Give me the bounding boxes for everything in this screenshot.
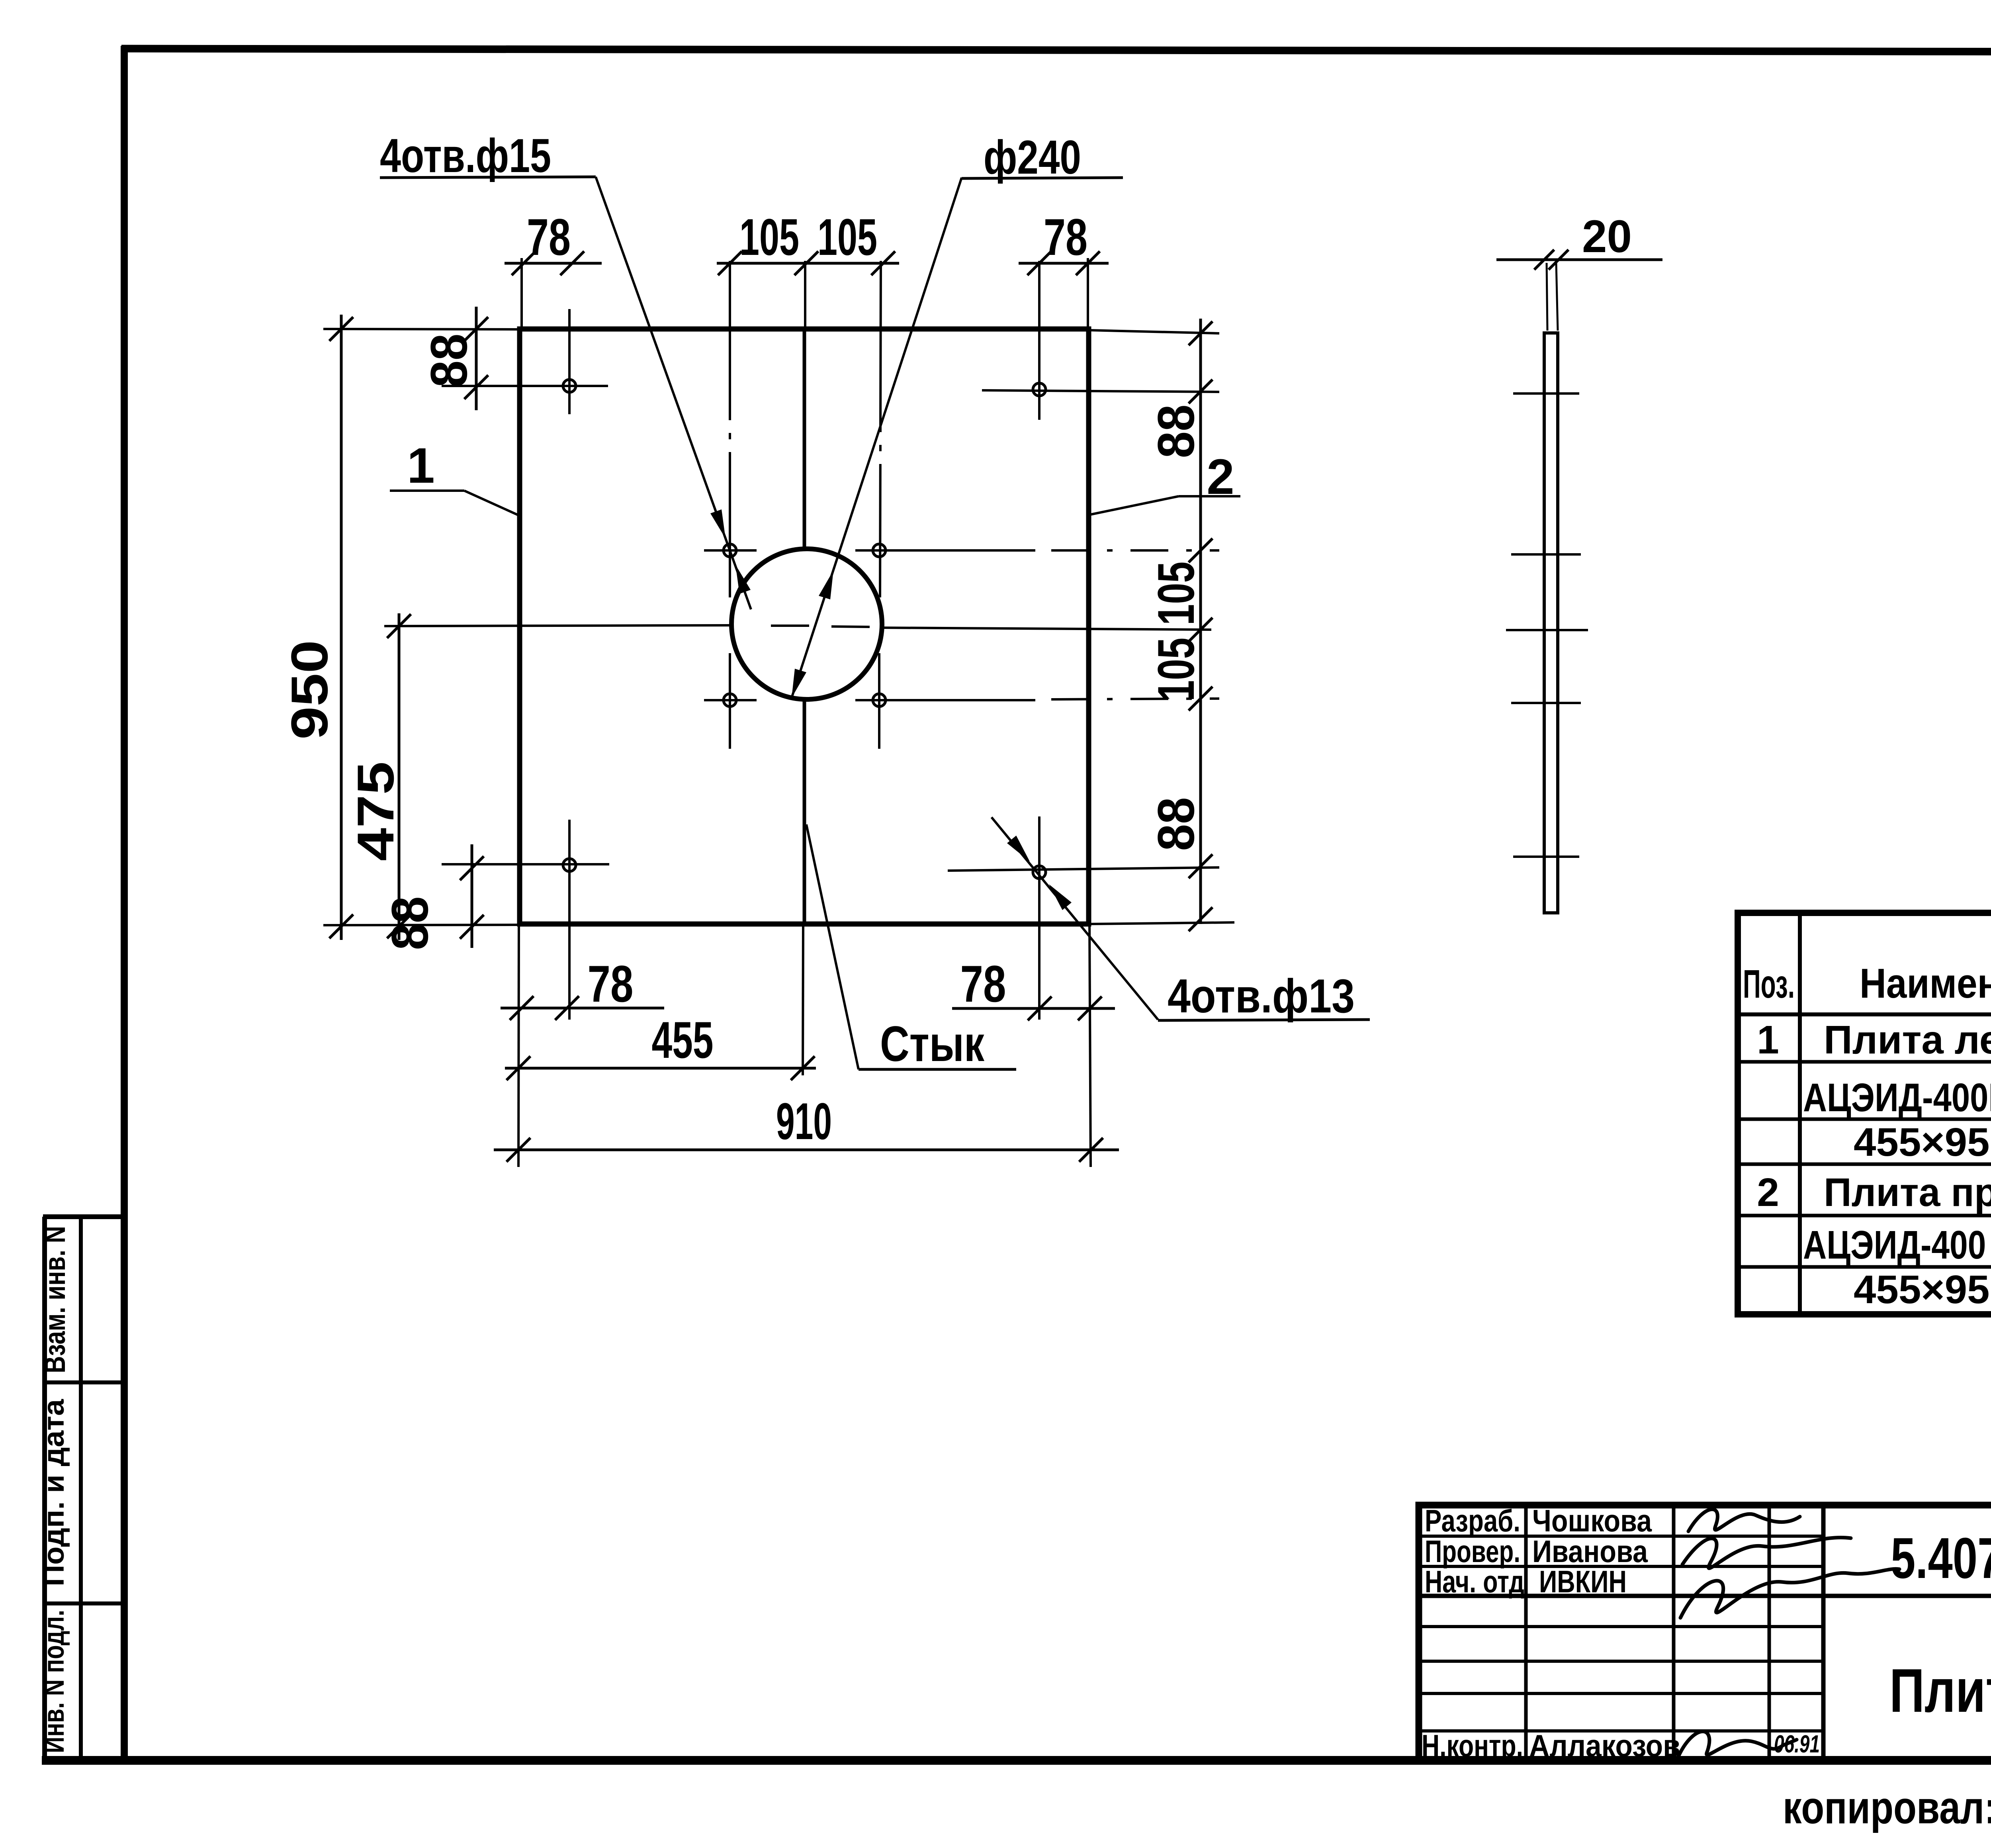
frame top border (121, 49, 1991, 53)
dim line left 475 (398, 613, 401, 940)
svg-text:Наименование: Наименование (1860, 960, 1991, 1007)
svg-text:ИВКИН: ИВКИН (1539, 1564, 1627, 1599)
svg-text:АЦЭИД-400ГОСТ4248-78: АЦЭИД-400ГОСТ4248-78 (1803, 1075, 1991, 1120)
leader pos1 (390, 489, 464, 492)
hole top-left (563, 380, 576, 392)
dim line right column (1199, 319, 1202, 924)
svg-text:Поз.: Поз. (1743, 962, 1795, 1006)
leader 4otv f15 (596, 177, 751, 609)
svg-text:105: 105 (1147, 638, 1205, 701)
dim line 910 (494, 1149, 1119, 1151)
PARTS TABLE outer (1738, 913, 1991, 1314)
SIDE VIEW (1544, 333, 1558, 913)
left extension: plate bottom edge (323, 925, 520, 925)
svg-text:1: 1 (407, 438, 435, 493)
hole mid row2 right (873, 694, 886, 707)
right extension: plate top edge (1089, 330, 1219, 333)
title block full divider under third row (1419, 1594, 1991, 1598)
signature nach otd (1680, 1569, 1899, 1618)
dim line left-bottom 88 (471, 844, 473, 948)
svg-text:455×950×20: 455×950×20 (1854, 1120, 1991, 1165)
svg-text:88: 88 (1147, 797, 1205, 851)
svg-text:Плита левая: Плита левая (1824, 1018, 1991, 1062)
hole top-right (1033, 383, 1046, 396)
mid row1 center line left segment (704, 549, 757, 552)
bottom extension: plate left edge (518, 924, 519, 1167)
leader styk (806, 824, 859, 1069)
svg-text:Плита П6: Плита П6 (1889, 1656, 1991, 1725)
svg-text:Чошкова: Чошкова (1532, 1503, 1652, 1538)
svg-text:78: 78 (960, 955, 1006, 1013)
signature squiggles (1678, 1509, 1899, 1756)
arrowhead f240 lower (792, 669, 806, 698)
svg-text:Взам. инв. N: Взам. инв. N (38, 1226, 71, 1373)
mid row2 center line right segment (855, 699, 1035, 701)
svg-text:Нач. отд: Нач. отд (1425, 1564, 1524, 1599)
svg-text:Иванова: Иванова (1532, 1534, 1648, 1569)
svg-text:ф240: ф240 (984, 131, 1081, 184)
svg-text:1: 1 (1757, 1018, 1779, 1062)
frame bottom border (42, 1756, 1991, 1765)
title block vertical: names/sign (1672, 1505, 1676, 1760)
svg-text:АЦЭИД-400 ГОСТ4248-78: АЦЭИД-400 ГОСТ4248-78 (1803, 1223, 1991, 1267)
leader pos2 (1179, 495, 1240, 497)
table row lines (1738, 1060, 1991, 1064)
svg-text:4отв.ф13: 4отв.ф13 (1168, 969, 1355, 1023)
TITLE BLOCK outer (1419, 1505, 1991, 1760)
mid row1 dash-dot extension (1051, 549, 1219, 552)
leader 4otv f13 (992, 817, 1158, 1020)
svg-text:Подп. и дата: Подп. и дата (37, 1399, 70, 1586)
svg-text:105: 105 (818, 208, 877, 266)
svg-text:2: 2 (1757, 1170, 1779, 1215)
dim line top-right 78 (1019, 262, 1109, 265)
svg-text:5.407-139.1-31: 5.407-139.1-31 (1891, 1526, 1991, 1590)
frame left border (121, 46, 128, 1764)
left extension: plate top edge (323, 329, 520, 329)
svg-text:Стык: Стык (880, 1016, 984, 1072)
svg-text:950: 950 (280, 640, 338, 740)
arrowhead f15 upper (710, 509, 726, 538)
svg-text:910: 910 (776, 1092, 832, 1150)
plate horizontal center line right segment (882, 628, 1211, 630)
hole bottom-right (1033, 866, 1046, 879)
title block vertical: sign/narrow (1768, 1505, 1771, 1760)
seam extension below plate (803, 924, 803, 1075)
hole bottom-left (563, 859, 576, 871)
signature prover (1682, 1537, 1851, 1568)
left side column block: outer lines (42, 1217, 47, 1760)
svg-text:06.91: 06.91 (1774, 1731, 1820, 1758)
arrowhead f13 lower (1049, 884, 1072, 910)
svg-text:4отв.ф15: 4отв.ф15 (380, 129, 551, 182)
mid row2 dash-dot extension (1051, 699, 1219, 699)
hole mid row2 left (724, 694, 736, 707)
svg-text:88: 88 (1147, 405, 1205, 458)
title block vertical: labels/names (1524, 1505, 1528, 1760)
svg-text:78: 78 (527, 208, 571, 266)
side view dim 20 (1496, 258, 1662, 261)
dim line 455 (505, 1067, 816, 1070)
hole mid row1 right (873, 544, 886, 557)
arrowhead f240 upper (819, 570, 833, 599)
arrowhead f15 lower (735, 565, 751, 594)
svg-text:455: 455 (652, 1011, 714, 1069)
svg-text:78: 78 (1044, 208, 1087, 266)
plate horizontal center line left segment (384, 625, 732, 626)
mid row2 center line left segment (704, 699, 757, 701)
mid row1 hole axis verticals (729, 261, 731, 597)
seam vertical line upper part (803, 329, 806, 550)
seam extension above plate (804, 261, 806, 329)
central hole circle d240 (731, 549, 882, 699)
signature n kontr (1678, 1731, 1797, 1756)
svg-text:78: 78 (588, 955, 634, 1013)
plate outline (square 950x910) (520, 329, 1089, 924)
table header bottom (1738, 1012, 1991, 1016)
svg-text:2: 2 (1207, 449, 1234, 505)
svg-text:Разраб.: Разраб. (1425, 1503, 1520, 1538)
svg-text:Провер.: Провер. (1425, 1534, 1520, 1569)
hole mid row1 left (724, 544, 736, 557)
dim line top 105 105 (717, 262, 899, 265)
svg-text:88: 88 (420, 334, 478, 388)
svg-text:копировал: Барковская: копировал: Барковская (1783, 1782, 1991, 1833)
svg-text:Н.контр.: Н.контр. (1422, 1728, 1523, 1763)
dim line top-left 78 (505, 262, 602, 265)
left column divider 2 (43, 1601, 124, 1605)
dim line bottom-right 78 (952, 1007, 1115, 1010)
svg-text:88: 88 (381, 897, 439, 950)
title block row lines left table (1419, 1535, 1823, 1538)
svg-text:105: 105 (1147, 562, 1205, 625)
top extension: plate right edge (1087, 258, 1089, 331)
svg-text:20: 20 (1582, 211, 1632, 262)
arrowhead f13 upper (1007, 836, 1030, 861)
svg-text:105: 105 (739, 208, 799, 266)
seam vertical line lower part (803, 700, 806, 924)
mid row1 center line right segment (855, 549, 1035, 552)
right extension: plate bottom edge (1089, 922, 1234, 924)
svg-text:Аллакозов: Аллакозов (1529, 1728, 1680, 1763)
dim line bottom-left 78 (501, 1007, 664, 1010)
title block vertical: left table end (1821, 1505, 1826, 1760)
leader f240 (792, 178, 962, 698)
dim line left 950 (340, 315, 343, 940)
svg-text:455×950×20: 455×950×20 (1854, 1267, 1991, 1312)
svg-text:Плита правая: Плита правая (1824, 1170, 1991, 1215)
bottom extension: plate right edge (1089, 924, 1091, 1167)
dim line left-top 88 (475, 307, 478, 410)
table column pos (1798, 913, 1802, 1314)
top extension: plate left edge (520, 258, 523, 331)
svg-text:Инв. N подл.: Инв. N подл. (37, 1610, 70, 1753)
left column divider 1 (43, 1380, 124, 1384)
signature razrab (1688, 1509, 1800, 1531)
mid row2 hole axis verticals (729, 653, 731, 749)
svg-text:475: 475 (346, 762, 405, 861)
